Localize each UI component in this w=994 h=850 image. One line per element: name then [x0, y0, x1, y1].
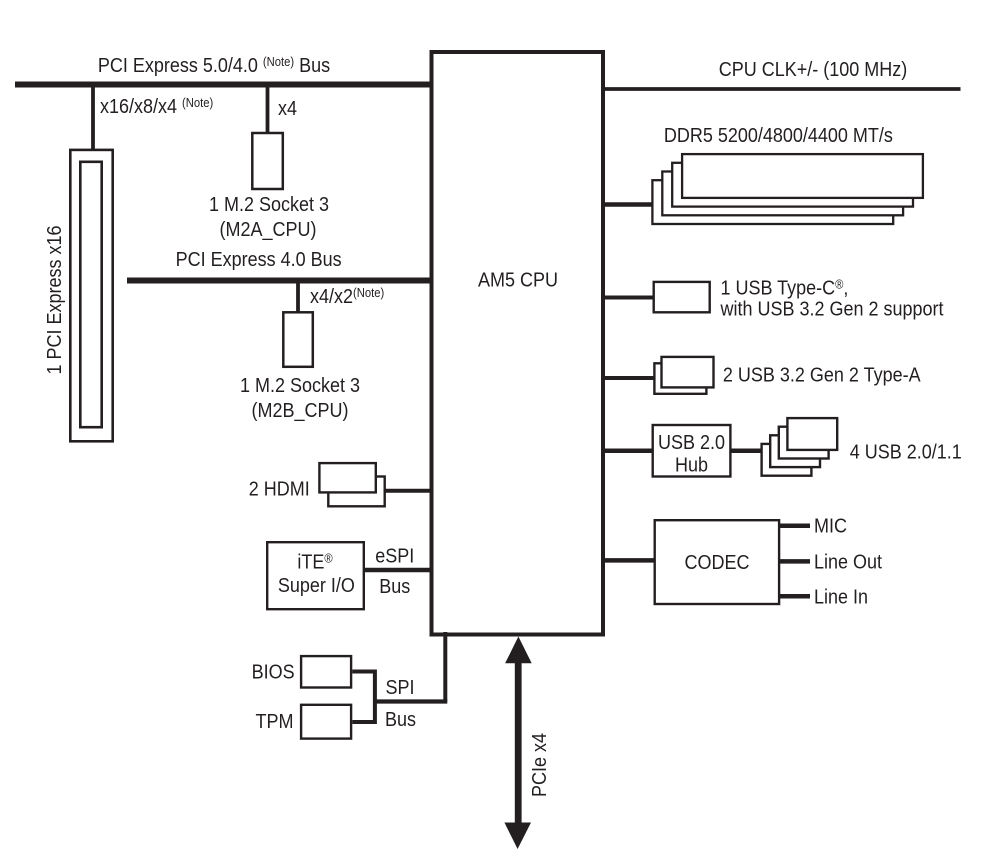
- wire: CPU to USB 3.2 Type-A: [603, 376, 658, 380]
- label: CODEC: [685, 552, 750, 574]
- CODEC box: [655, 520, 779, 604]
- wire: CPU to USB 2.0 Hub: [603, 448, 655, 453]
- label: PCI Express 5.0/4.0 Bus: [98, 54, 330, 77]
- label: 2 USB 3.2 Gen 2 Type-A: [723, 365, 921, 387]
- wire: x16 branch: [91, 84, 95, 149]
- label: TPM: [256, 711, 294, 733]
- label: x4/x2 (Note): [310, 285, 384, 308]
- label: eSPI: [375, 546, 414, 568]
- label: Line Out: [814, 552, 883, 574]
- svg-text:1 USB Type-C®,: 1 USB Type-C®,: [721, 277, 849, 300]
- svg-text:2 USB 3.2 Gen 2 Type-A: 2 USB 3.2 Gen 2 Type-A: [723, 365, 921, 387]
- svg-text:CODEC: CODEC: [685, 552, 750, 574]
- USB Type-C box: [654, 282, 710, 312]
- HDMI stack (2 ports): [319, 463, 384, 506]
- svg-text:BIOS: BIOS: [252, 661, 295, 683]
- wire: CPU CLK: [603, 87, 961, 91]
- svg-text:4 USB 2.0/1.1: 4 USB 2.0/1.1: [850, 442, 962, 464]
- wire: Line Out stub: [779, 559, 810, 564]
- wire: HDMI to CPU: [384, 489, 433, 493]
- label: MIC: [814, 516, 847, 538]
- USB 2.0 Hub box: [653, 425, 731, 477]
- label: 2 HDMI: [249, 479, 310, 501]
- label: PCI Express 4.0 Bus: [176, 249, 342, 271]
- svg-text:1 M.2 Socket 3: 1 M.2 Socket 3: [209, 194, 329, 216]
- svg-text:Line In: Line In: [814, 587, 868, 609]
- PCIe x16 slot inner: [80, 162, 101, 427]
- wire: x4/x2 branch to M2B: [296, 281, 300, 312]
- label: x4: [278, 98, 297, 120]
- svg-text:CPU CLK+/- (100 MHz): CPU CLK+/- (100 MHz): [719, 59, 907, 81]
- wire: CPU to DIMM stack: [603, 202, 655, 207]
- svg-text:PCI Express 4.0 Bus: PCI Express 4.0 Bus: [176, 249, 342, 271]
- label: AM5 CPU: [478, 270, 558, 292]
- M.2 socket M2A box: [252, 133, 282, 189]
- label: 1 USB Type-C, with USB 3.2 Gen 2 support: [721, 277, 849, 300]
- label: PCIe x4 (vertical): [529, 733, 551, 797]
- svg-text:x4: x4: [278, 98, 297, 120]
- USB Type-A stack (2 ports): [654, 357, 713, 394]
- svg-text:Line Out: Line Out: [814, 552, 883, 574]
- label: 1 PCI Express x16 (vertical): [44, 226, 66, 375]
- label: Bus (eSPI): [379, 576, 410, 598]
- USB 2.0 stack (4 ports): [762, 418, 838, 476]
- M.2 socket M2B box: [283, 312, 313, 367]
- wire: BIOS to SPI node: [352, 672, 375, 723]
- svg-text:TPM: TPM: [256, 711, 294, 733]
- wire: hub to USB2 stack: [730, 448, 762, 453]
- svg-text:Bus: Bus: [379, 576, 410, 598]
- wire: PCI Express 4.0 bus: [127, 278, 433, 284]
- label: SPI: [385, 677, 414, 699]
- wire: eSPI bus: [364, 568, 433, 573]
- label: Bus (SPI): [385, 709, 416, 731]
- svg-text:(M2A_CPU): (M2A_CPU): [220, 219, 317, 241]
- svg-text:1 PCI Express x16: 1 PCI Express x16: [44, 226, 66, 375]
- svg-text:USB 2.0: USB 2.0: [658, 432, 725, 454]
- wire: PCI Express 5.0/4.0 bus: [15, 82, 433, 88]
- svg-text:SPI: SPI: [385, 677, 414, 699]
- wire: SPI vertical from CPU bottom: [443, 632, 447, 702]
- label: 1 M.2 Socket 3 (M2A_CPU): [209, 194, 329, 216]
- label: x16/x8/x4 (Note): [100, 95, 213, 118]
- wire: CPU to CODEC: [603, 558, 656, 563]
- svg-text:PCIe x4: PCIe x4: [529, 733, 551, 797]
- svg-text:1 M.2 Socket 3: 1 M.2 Socket 3: [240, 375, 360, 397]
- wire: x4 branch to M2A: [266, 84, 270, 133]
- label: CPU CLK+/- (100 MHz): [719, 59, 907, 81]
- label: 1 M.2 Socket 3 (M2B_CPU): [240, 375, 360, 397]
- CPU box: [432, 52, 604, 635]
- PCIe x16 slot outer: [70, 150, 112, 441]
- svg-text:AM5 CPU: AM5 CPU: [478, 270, 558, 292]
- label: 4 USB 2.0/1.1: [850, 442, 962, 464]
- svg-text:Hub: Hub: [675, 455, 708, 477]
- svg-text:DDR5 5200/4800/4400 MT/s: DDR5 5200/4800/4400 MT/s: [664, 125, 893, 147]
- label: BIOS: [252, 661, 295, 683]
- svg-text:Super I/O: Super I/O: [278, 575, 355, 597]
- label: iTE Super I/O: [297, 551, 333, 574]
- wire: CPU to USB Type-C: [603, 296, 656, 300]
- TPM box: [301, 705, 351, 739]
- label: DDR5 5200/4800/4400 MT/s: [664, 125, 893, 147]
- iTE Super I/O box: [267, 542, 364, 609]
- label: Line In: [814, 587, 868, 609]
- PCIe x4 arrow (double headed): [504, 637, 531, 850]
- wire: Line In stub: [779, 594, 810, 599]
- wire: SPI bus horizontal: [373, 699, 447, 703]
- DIMM stack (4 modules): [652, 154, 922, 224]
- svg-text:2 HDMI: 2 HDMI: [249, 479, 310, 501]
- svg-text:(M2B_CPU): (M2B_CPU): [252, 400, 349, 422]
- svg-text:PCI Express 5.0/4.0 (Note) Bus: PCI Express 5.0/4.0 (Note) Bus: [98, 54, 330, 77]
- BIOS box: [301, 656, 351, 687]
- svg-text:with USB 3.2 Gen 2 support: with USB 3.2 Gen 2 support: [720, 299, 945, 321]
- wire: MIC stub: [779, 524, 810, 529]
- svg-text:eSPI: eSPI: [375, 546, 414, 568]
- label: USB 2.0 Hub: [658, 432, 725, 454]
- svg-text:MIC: MIC: [814, 516, 847, 538]
- svg-text:Bus: Bus: [385, 709, 416, 731]
